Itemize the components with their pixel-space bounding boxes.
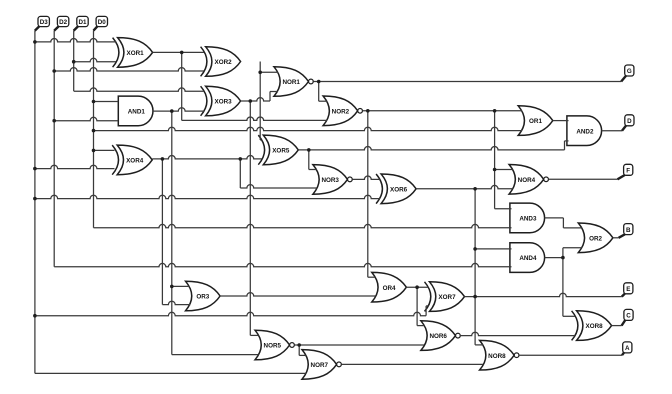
svg-text:OR2: OR2	[589, 235, 602, 242]
svg-text:F: F	[626, 168, 630, 175]
svg-text:E: E	[626, 286, 630, 293]
svg-text:OR3: OR3	[196, 294, 209, 301]
svg-text:G: G	[627, 68, 632, 75]
svg-text:A: A	[625, 345, 630, 352]
svg-text:NOR4: NOR4	[518, 177, 536, 184]
svg-text:C: C	[626, 313, 631, 320]
svg-text:AND2: AND2	[576, 128, 594, 135]
svg-text:NOR3: NOR3	[321, 177, 339, 184]
svg-text:NOR1: NOR1	[282, 79, 300, 86]
svg-text:OR4: OR4	[383, 285, 396, 292]
svg-text:AND3: AND3	[519, 216, 537, 223]
svg-text:AND4: AND4	[519, 255, 537, 262]
svg-text:NOR5: NOR5	[264, 343, 282, 350]
svg-text:D0: D0	[98, 19, 107, 26]
svg-text:XOR6: XOR6	[390, 186, 408, 193]
svg-text:OR1: OR1	[529, 118, 542, 125]
svg-text:XOR8: XOR8	[586, 323, 604, 330]
svg-text:D1: D1	[79, 19, 88, 26]
svg-text:NOR7: NOR7	[311, 362, 329, 369]
svg-text:XOR3: XOR3	[215, 99, 233, 106]
svg-text:XOR2: XOR2	[215, 59, 233, 66]
svg-text:D2: D2	[59, 19, 68, 26]
svg-text:XOR5: XOR5	[272, 148, 290, 155]
svg-text:NOR6: NOR6	[429, 333, 447, 340]
svg-text:D3: D3	[40, 19, 49, 26]
svg-text:XOR7: XOR7	[438, 294, 456, 301]
svg-text:D: D	[627, 118, 632, 125]
svg-text:NOR2: NOR2	[332, 108, 350, 115]
svg-text:B: B	[626, 227, 631, 234]
svg-text:XOR1: XOR1	[127, 50, 145, 57]
svg-text:XOR4: XOR4	[126, 158, 144, 165]
svg-text:NOR8: NOR8	[488, 353, 506, 360]
svg-text:AND1: AND1	[128, 109, 146, 116]
